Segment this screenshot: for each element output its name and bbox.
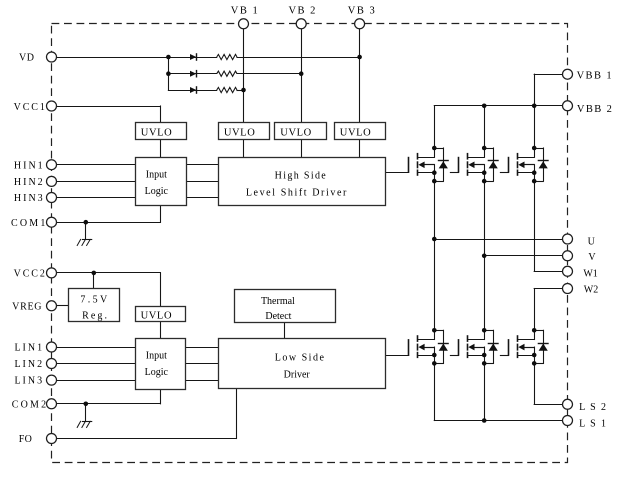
svg-text:High Side: High Side <box>275 170 327 181</box>
svg-text:VBB 2: VBB 2 <box>577 104 613 115</box>
svg-text:COM1: COM1 <box>11 218 48 229</box>
svg-text:Logic: Logic <box>145 186 169 197</box>
svg-text:L S 1: L S 1 <box>579 419 607 430</box>
svg-text:VD: VD <box>19 53 34 64</box>
svg-text:FO: FO <box>19 434 32 445</box>
svg-text:Driver: Driver <box>284 370 311 381</box>
svg-text:Logic: Logic <box>145 367 169 378</box>
svg-text:VBB 1: VBB 1 <box>577 70 613 81</box>
svg-text:VB 2: VB 2 <box>288 5 316 16</box>
svg-text:7.5V: 7.5V <box>80 294 109 305</box>
svg-text:COM2: COM2 <box>12 399 49 410</box>
svg-text:VCC2: VCC2 <box>14 269 47 280</box>
svg-text:LIN1: LIN1 <box>14 343 44 354</box>
svg-text:U: U <box>588 236 596 247</box>
svg-text:Input: Input <box>146 169 167 180</box>
svg-text:Detect: Detect <box>265 311 291 322</box>
svg-text:VREG: VREG <box>12 301 42 312</box>
svg-text:L S 2: L S 2 <box>579 402 607 413</box>
svg-text:LIN2: LIN2 <box>14 359 44 370</box>
svg-text:VB 3: VB 3 <box>348 5 376 16</box>
svg-text:Low Side: Low Side <box>275 353 326 364</box>
svg-text:HIN2: HIN2 <box>14 177 45 188</box>
svg-text:LIN3: LIN3 <box>14 376 44 387</box>
svg-text:VB 1: VB 1 <box>231 5 259 16</box>
svg-text:HIN1: HIN1 <box>14 160 45 171</box>
svg-text:Level Shift Driver: Level Shift Driver <box>246 188 348 199</box>
svg-text:W2: W2 <box>584 285 598 296</box>
svg-text:UVLO: UVLO <box>141 311 173 322</box>
svg-text:UVLO: UVLO <box>280 128 312 139</box>
svg-text:Input: Input <box>146 351 167 362</box>
svg-text:HIN3: HIN3 <box>14 193 45 204</box>
svg-text:VCC1: VCC1 <box>14 102 47 113</box>
svg-text:Thermal: Thermal <box>261 296 295 307</box>
svg-text:Reg.: Reg. <box>82 310 109 321</box>
svg-text:UVLO: UVLO <box>224 128 256 139</box>
svg-text:W1: W1 <box>583 269 597 280</box>
svg-text:UVLO: UVLO <box>141 128 173 139</box>
svg-text:V: V <box>588 252 596 263</box>
svg-text:UVLO: UVLO <box>340 128 372 139</box>
